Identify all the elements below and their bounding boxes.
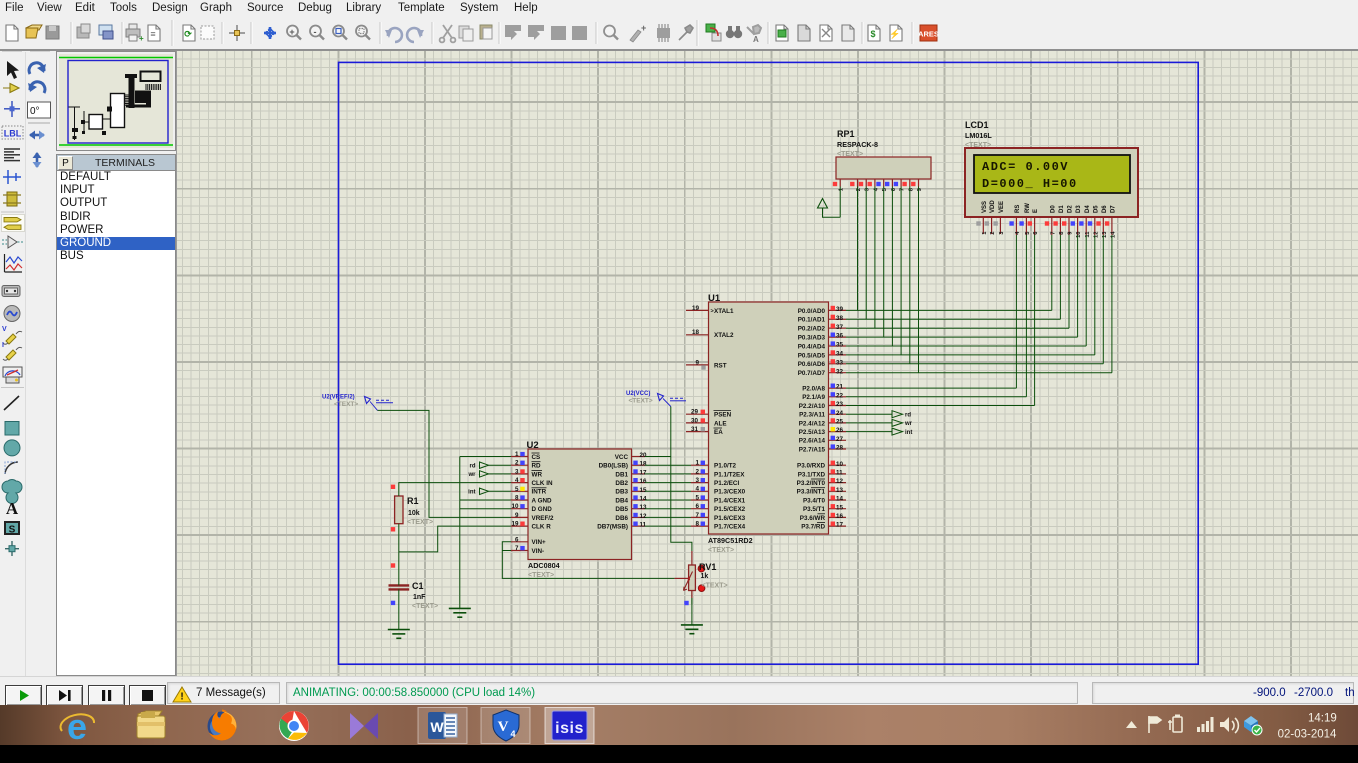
chip U2 ADC0804 [511,440,647,579]
svg-text:2: 2 [990,232,996,235]
svg-text:EA: EA [714,429,723,436]
svg-text:RST: RST [714,362,727,369]
svg-text:<TEXT>: <TEXT> [334,401,358,408]
wire net AD1: U1 P0.1 to RP1 pin 3 and LCD D1 [846,187,1060,320]
svg-text:RESPACK-8: RESPACK-8 [837,140,878,149]
svg-text:10k: 10k [408,510,420,517]
svg-text:7: 7 [1050,232,1056,235]
wire net AD7: U1 P0.7 to RP1 pin 9 and LCD D7 [846,187,1112,373]
svg-text:12: 12 [836,478,844,485]
svg-text:RP1: RP1 [837,129,855,139]
svg-text:RD: RD [532,463,542,470]
svg-text:P2.0/A8: P2.0/A8 [802,386,825,393]
svg-text:LM016L: LM016L [965,131,992,140]
svg-text:2: 2 [856,188,862,191]
svg-text:8: 8 [515,495,519,502]
svg-text:0°: 0° [30,106,40,117]
svg-text:⚡: ⚡ [889,28,900,40]
svg-text:D3: D3 [1076,205,1082,213]
svg-text:31: 31 [691,426,699,433]
wire RP1 pin1 to power [839,187,841,218]
svg-text:DB3: DB3 [615,489,628,496]
svg-text:37: 37 [836,324,844,331]
svg-text:14: 14 [836,496,844,503]
svg-text:XTAL2: XTAL2 [714,332,734,339]
svg-text:34: 34 [836,351,844,358]
svg-text:P2.7/A15: P2.7/A15 [799,446,826,453]
svg-text:A: A [753,35,759,44]
svg-text:WR: WR [532,471,543,478]
svg-text:+: + [289,27,294,37]
wire net AD2: U1 P0.2 to RP1 pin 4 and LCD D2 [846,187,1069,329]
svg-text:02-03-2014: 02-03-2014 [1278,729,1337,741]
svg-text:P3.7/RD: P3.7/RD [801,524,825,531]
potentiometer RV1 1k [674,551,727,604]
svg-text:35: 35 [836,342,844,349]
svg-text:14:19: 14:19 [1308,713,1337,725]
svg-text:+: + [641,23,646,33]
svg-text:DB7(MSB): DB7(MSB) [597,524,628,531]
wire net DB5: U2 pin 13 to U1 P1.5 [645,508,691,510]
svg-text:int: int [468,490,475,496]
svg-text:17: 17 [640,469,648,476]
svg-text:P1.7/CEX4: P1.7/CEX4 [714,524,746,531]
svg-text:10: 10 [1076,231,1082,237]
resistor R1 10k [395,496,433,526]
svg-text:32: 32 [836,368,844,375]
svg-text:<TEXT>: <TEXT> [837,151,863,158]
svg-text:P0.1/AD1: P0.1/AD1 [798,317,826,324]
svg-text:16: 16 [640,478,648,485]
svg-text:ALE: ALE [714,420,727,427]
svg-text:11: 11 [836,470,843,477]
svg-text:P3.3/INT1: P3.3/INT1 [797,489,826,496]
svg-text:VIN-: VIN- [532,548,545,555]
svg-text:DB0(LSB): DB0(LSB) [599,463,628,470]
svg-text:14: 14 [640,496,648,503]
wire net DB0: U2 pin 18 to U1 P1.0 [645,464,691,466]
svg-text:P1.2/ECI: P1.2/ECI [714,480,739,487]
svg-text:DB4: DB4 [615,497,628,504]
svg-text:P2.6/A14: P2.6/A14 [799,438,826,445]
svg-text:15: 15 [836,504,844,511]
ground (RV1) [681,624,703,626]
svg-text:V: V [498,719,509,735]
svg-text:DB5: DB5 [615,506,628,513]
svg-text:P0.7/AD7: P0.7/AD7 [798,370,826,377]
wire R1 bottom to C1 top [398,524,400,586]
svg-text:4: 4 [510,729,515,739]
power terminal U2(VCC) [626,391,686,407]
svg-text:wr: wr [904,421,913,427]
svg-text:<TEXT>: <TEXT> [407,519,433,526]
svg-text:RS: RS [1015,205,1021,213]
svg-text:18: 18 [640,461,648,468]
capacitor C1 1nF [389,581,439,610]
svg-text:11: 11 [640,522,647,529]
svg-text:rd: rd [470,464,476,470]
svg-text:R1: R1 [407,496,419,506]
svg-text:RW: RW [1025,203,1031,213]
wire net RW: U1 P2.1 to LCD RW [846,235,1026,397]
svg-text:C1: C1 [412,581,424,591]
svg-text:7: 7 [695,512,699,519]
svg-text:P0.3/AD3: P0.3/AD3 [798,335,826,342]
svg-text:10: 10 [836,461,844,468]
svg-text:4: 4 [695,486,699,493]
wire net AD6: U1 P0.6 to RP1 pin 8 and LCD D6 [846,187,1103,364]
input terminal rd (to U2 RD) [470,462,512,470]
svg-text:D6: D6 [1102,205,1108,213]
wire R1 top to U2 CLK IN [399,483,511,496]
svg-text:P3.1/TXD: P3.1/TXD [798,471,826,478]
svg-text:P1.1/T2EX: P1.1/T2EX [714,471,745,478]
svg-text:I: I [2,342,4,349]
svg-text:P2.3/A11: P2.3/A11 [799,412,825,419]
svg-text:27: 27 [836,436,844,443]
svg-text:VDD: VDD [990,200,996,213]
svg-text:A: A [6,499,19,518]
svg-text:P1.5/CEX2: P1.5/CEX2 [714,506,746,513]
svg-text:6: 6 [515,536,519,543]
svg-text:30: 30 [691,417,699,424]
wire net DB1: U2 pin 17 to U1 P1.1 [645,473,691,475]
svg-text:6: 6 [695,503,699,510]
wire net DB7: U2 pin 11 to U1 P1.7 [645,525,691,527]
svg-text:19: 19 [692,305,700,312]
svg-text:17: 17 [836,522,844,529]
pin state squares R1/C1 [391,485,395,606]
svg-text:16: 16 [836,513,844,520]
svg-text:DB1: DB1 [615,471,628,478]
svg-text:D=000_ H=00: D=000_ H=00 [982,177,1078,191]
svg-text:7: 7 [515,545,519,552]
svg-text:P2.5/A13: P2.5/A13 [799,429,826,436]
input terminal int (to U2 INTR) [468,488,511,496]
power terminal U2(VREF/2) [322,395,393,411]
svg-text:D7: D7 [1111,205,1117,213]
wire net DB4: U2 pin 14 to U1 P1.4 [645,499,691,501]
svg-text:38: 38 [836,315,844,322]
svg-text:P0.5/AD5: P0.5/AD5 [798,352,826,359]
svg-text:P1.3/CEX0: P1.3/CEX0 [714,489,746,496]
svg-text:CS: CS [532,454,541,461]
svg-text:<TEXT>: <TEXT> [702,583,728,590]
svg-text:S: S [9,525,16,536]
svg-text:isis: isis [555,720,584,737]
svg-text:$: $ [870,29,875,39]
svg-text:P2.2/A10: P2.2/A10 [799,403,826,410]
svg-text:ADC= 0.00V: ADC= 0.00V [982,160,1069,174]
wire C1 bottom to ground [398,589,400,629]
svg-text:D2: D2 [1068,205,1074,213]
svg-text:29: 29 [691,409,699,416]
svg-text:P0.2/AD2: P0.2/AD2 [798,326,826,333]
svg-text:U2: U2 [527,440,539,451]
svg-text:wr: wr [467,472,476,478]
svg-text:25: 25 [836,419,844,426]
output terminal rd (from U1 P2) [846,411,911,419]
svg-text:12: 12 [640,513,648,520]
svg-text:P2.4/A12: P2.4/A12 [799,420,826,427]
svg-text:V: V [2,326,7,333]
svg-text:1nF: 1nF [413,594,426,601]
svg-text:≡: ≡ [150,29,155,39]
svg-text:4: 4 [515,477,519,484]
svg-text:<TEXT>: <TEXT> [412,603,438,610]
wire net E: U1 P2.2 to LCD E [846,235,1035,406]
svg-text:VCC: VCC [615,454,629,461]
svg-text:23: 23 [836,401,844,408]
svg-text:26: 26 [836,427,844,434]
svg-text:2: 2 [515,460,519,467]
svg-text:LCD1: LCD1 [965,120,989,130]
svg-text:39: 39 [836,306,844,313]
wire net RS: U1 P2.0 to LCD RS [846,235,1016,388]
svg-text:CLK R: CLK R [532,524,552,531]
svg-text:18: 18 [692,329,700,336]
svg-text:1k: 1k [701,573,709,580]
svg-text:⟳: ⟳ [184,29,192,39]
svg-text:1: 1 [695,460,699,467]
svg-text:P3.2/INT0: P3.2/INT0 [797,480,826,487]
sheet border (blue) [339,62,1199,664]
svg-text:D5: D5 [1093,205,1099,213]
svg-text:U1: U1 [708,293,721,304]
wire net AD4: U1 P0.4 to RP1 pin 6 and LCD D4 [846,187,1086,347]
svg-text:W: W [430,719,444,735]
svg-text:20: 20 [640,452,648,459]
svg-text:PSEN: PSEN [714,412,732,419]
svg-text:12: 12 [1093,232,1099,238]
wire RV1 bottom to ground [691,598,693,625]
svg-text:e: e [67,706,87,745]
svg-text:VEE: VEE [999,201,1005,213]
svg-text:U2(VREF/2): U2(VREF/2) [322,395,355,401]
svg-text:VREF/2: VREF/2 [532,515,555,522]
wire net DB3: U2 pin 15 to U1 P1.3 [645,490,691,492]
svg-text:24: 24 [836,410,844,417]
svg-text:P3.4/T0: P3.4/T0 [803,497,826,504]
svg-text:!: ! [180,692,183,703]
svg-text:AT89C51RD2: AT89C51RD2 [708,536,753,545]
svg-text:5: 5 [515,486,519,493]
svg-text:9: 9 [515,512,519,519]
svg-text:2: 2 [695,468,699,475]
svg-text:19: 19 [511,521,519,528]
svg-text:>: > [711,309,714,315]
LCD display LCD1 LM016L [965,120,1138,238]
svg-text:28: 28 [836,445,844,452]
svg-text:10: 10 [511,503,519,510]
svg-text:P3.5/T1: P3.5/T1 [803,506,826,513]
svg-text:1: 1 [515,451,519,458]
wire net AD5: U1 P0.5 to RP1 pin 7 and LCD D5 [846,187,1095,355]
svg-text:XTAL1: XTAL1 [714,308,734,315]
svg-text:D GND: D GND [532,506,553,513]
svg-text:<TEXT>: <TEXT> [708,547,734,554]
svg-text:E: E [1033,209,1039,213]
svg-text:-: - [314,27,317,37]
svg-text:P1.0/T2: P1.0/T2 [714,463,737,470]
svg-text:ARES: ARES [918,30,939,39]
svg-text:P1.4/CEX1: P1.4/CEX1 [714,497,746,504]
svg-text:LBL: LBL [4,128,22,138]
svg-text:36: 36 [836,333,844,340]
svg-text:P2.1/A9: P2.1/A9 [802,394,825,401]
svg-text:22: 22 [836,392,844,399]
svg-text:INTR: INTR [532,489,547,496]
wire net DB6: U2 pin 12 to U1 P1.6 [645,516,691,518]
svg-text:U2(VCC): U2(VCC) [626,391,650,397]
svg-text:3: 3 [695,477,699,484]
svg-text:15: 15 [640,487,648,494]
svg-text:5: 5 [695,494,699,501]
wire U2(VCC) net: flag to U2 pin20 and down to RV1 top [671,407,692,552]
svg-text:VSS: VSS [982,201,988,213]
svg-text:VIN+: VIN+ [532,539,546,546]
wire U2 VIN+/VIN- to RV1 wiper [502,542,674,579]
svg-text:P3.6/WR: P3.6/WR [800,515,826,522]
svg-text:CLK IN: CLK IN [532,480,553,487]
svg-text:P1.6/CEX3: P1.6/CEX3 [714,515,746,522]
svg-text:P0.6/AD6: P0.6/AD6 [798,361,826,368]
svg-text:DB6: DB6 [615,515,628,522]
svg-text:3: 3 [515,468,519,475]
wire net AD0: U1 P0.0 to RP1 pin 2 and LCD D0 [846,187,1052,311]
svg-text:D4: D4 [1085,205,1091,213]
svg-text:A GND: A GND [532,497,553,504]
svg-text:33: 33 [836,359,844,366]
svg-text:+: + [139,34,144,43]
svg-text:DB2: DB2 [615,480,628,487]
power terminal (VCC arrow) for RP1 pin1 [818,187,841,218]
svg-text:21: 21 [836,384,844,391]
output terminal wr (from U1 P2) [846,419,913,427]
svg-text:RV1: RV1 [699,562,716,572]
ground (U2 gnd net) [449,607,471,609]
wire net AD3: U1 P0.3 to RP1 pin 5 and LCD D3 [846,187,1078,338]
resistor pack RP1 RESPACK-8 [833,129,931,191]
chip U1 AT89C51RD2 microcontroller [686,293,846,554]
input terminal wr (to U2 WR) [467,471,511,479]
svg-text:13: 13 [836,487,844,494]
svg-text:7: 7 [900,188,906,191]
svg-text:P3.0/RXD: P3.0/RXD [797,463,825,470]
svg-text:11: 11 [1085,231,1091,238]
svg-text:rd: rd [905,413,911,419]
svg-text:13: 13 [640,504,648,511]
svg-text:D1: D1 [1059,205,1065,213]
svg-text:P0.4/AD4: P0.4/AD4 [798,343,826,350]
svg-text:int: int [905,430,912,436]
svg-text:P0.0/AD0: P0.0/AD0 [798,308,826,315]
output terminal int (from U1 P2) [846,428,912,436]
svg-text:D0: D0 [1050,205,1056,213]
ground (C1) [388,629,410,631]
svg-text:8: 8 [695,521,699,528]
wire U2(VREF/2) to U2 pin9 [378,410,512,517]
svg-text:<TEXT>: <TEXT> [629,398,653,405]
wire U2 CLK R to R1 bottom junction [399,526,511,552]
wire U2 CS + A GND + D GND to ground [460,457,511,609]
svg-text:ADC0804: ADC0804 [528,561,560,570]
svg-text:9: 9 [695,359,699,366]
wire net DB2: U2 pin 16 to U1 P1.2 [645,482,691,484]
